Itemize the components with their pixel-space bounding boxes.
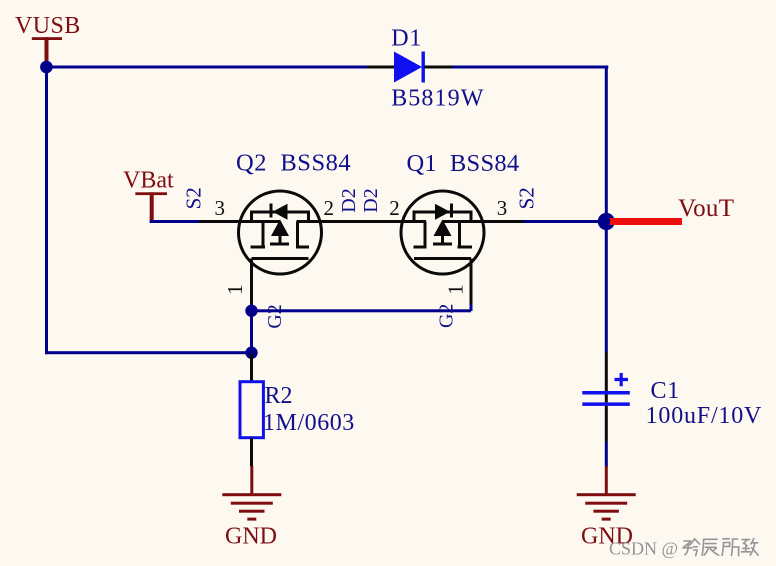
wire left rail vertical [45, 67, 48, 354]
svg-text:2: 2 [324, 196, 335, 220]
transistor Q2 BSS84 [199, 150, 426, 305]
svg-text:1M/0603: 1M/0603 [263, 410, 355, 436]
svg-text:D2: D2 [338, 188, 360, 212]
svg-text:CSDN @: CSDN @ [609, 539, 678, 559]
svg-text:VouT: VouT [678, 195, 734, 222]
VUSB stub [45, 37, 49, 67]
power port VUSB [15, 13, 81, 67]
Q2 gate plate [252, 257, 309, 260]
Q2 source pin (3) [199, 220, 280, 223]
svg-text:1: 1 [223, 284, 247, 295]
watermark CSDN [609, 539, 678, 559]
wire C1 to ground [605, 442, 608, 467]
svg-text:C1: C1 [651, 378, 681, 404]
svg-text:S2: S2 [182, 187, 206, 209]
Q2 body circle [239, 191, 322, 274]
svg-text:VUSB: VUSB [15, 13, 81, 39]
svg-text:D2: D2 [360, 188, 382, 212]
wire VouT (red) [610, 218, 682, 225]
VUSB bar symbol [32, 37, 62, 40]
svg-text:B5819W: B5819W [391, 85, 484, 111]
Q2 body-diode arrow [273, 204, 288, 220]
wire Q1 pin3 to output node [524, 220, 607, 223]
D1 triangle [394, 52, 422, 83]
C1 bottom plate [582, 402, 630, 406]
Q2 body-diode path [252, 212, 309, 222]
svg-text:R2: R2 [265, 383, 293, 409]
svg-text:3: 3 [215, 196, 226, 220]
svg-text:3: 3 [497, 196, 508, 220]
node gate junction upper [245, 305, 257, 317]
svg-text:Q2 BSS84: Q2 BSS84 [236, 150, 351, 177]
Q2 body-diode cathode bar [270, 204, 273, 218]
svg-text:100uF/10V: 100uF/10V [646, 403, 763, 429]
Q1 gate pin (1) [470, 259, 473, 305]
right ground bars [577, 493, 636, 496]
Q1 source pin (3) [443, 220, 524, 223]
power port VBat [123, 168, 174, 224]
resistor R2 [240, 353, 355, 467]
ground GND (right) [577, 466, 636, 550]
svg-text:S2: S2 [515, 187, 539, 209]
capacitor C1 [582, 352, 762, 467]
Q1 channel arrow [434, 220, 452, 237]
node gate junction lower [245, 347, 257, 359]
C1 positive pin [605, 352, 608, 402]
svg-text:D1: D1 [391, 25, 422, 51]
wire top rail VUSB to D1 [45, 66, 368, 69]
Q2 gate pin (1) [250, 259, 253, 305]
Q1 body-diode cathode bar [450, 204, 453, 218]
left ground stub [250, 466, 253, 496]
Q1 body-diode arrow [435, 204, 450, 220]
C1 plus mark [615, 373, 629, 386]
svg-text:Q1 BSS84: Q1 BSS84 [407, 150, 520, 177]
Q1 body-diode path [414, 212, 471, 222]
svg-text:2: 2 [389, 196, 400, 220]
Q1 body circle [401, 191, 484, 274]
wire left rail horizontal to gate net [45, 351, 253, 354]
wire right rail vertical [605, 67, 608, 352]
R2 pin 2 [250, 438, 253, 467]
transistor Q1 BSS84 [401, 150, 524, 304]
left ground bars [222, 493, 281, 496]
D1 cathode bar [422, 52, 425, 83]
Q2 channel arrow [271, 220, 289, 237]
Q2 drain pin (2) to Q1 [297, 220, 427, 223]
svg-text:G2: G2 [436, 304, 458, 328]
node output junction [598, 213, 615, 230]
Q1 gate plate [414, 257, 471, 260]
D1 cathode pin [425, 66, 453, 69]
wire gate net horizontal [252, 309, 472, 312]
wire Q1 gate down [470, 304, 473, 311]
wire Q2 gate down [250, 304, 253, 354]
R2 body rectangle [240, 382, 263, 438]
watermark chinese characters [683, 539, 758, 556]
wire top rail D1 to right rail [452, 66, 608, 69]
svg-text:VBat: VBat [123, 168, 174, 194]
VBat bar symbol [135, 192, 167, 195]
right ground stub [605, 466, 608, 496]
svg-text:G2: G2 [264, 304, 286, 328]
diode D1 B5819W [367, 25, 484, 111]
svg-text:GND: GND [225, 524, 277, 550]
wire VBat to Q2 pin 3 [150, 220, 200, 223]
C1 negative pin [605, 406, 608, 442]
D1 anode pin [367, 66, 394, 69]
svg-text:1: 1 [444, 284, 468, 295]
VBat stub [150, 192, 154, 223]
node VUSB junction [40, 61, 53, 74]
ground GND (left) [222, 466, 281, 550]
C1 top plate [582, 391, 630, 395]
R2 pin 1 [250, 353, 253, 382]
